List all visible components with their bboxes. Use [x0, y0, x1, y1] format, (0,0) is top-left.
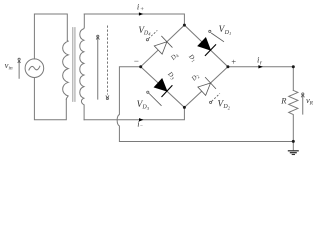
svg-text:4: 4	[148, 32, 151, 37]
svg-text:+: +	[140, 6, 144, 13]
svg-text:r: r	[260, 60, 263, 66]
svg-text:1: 1	[229, 31, 231, 36]
svg-text:R: R	[280, 95, 287, 105]
svg-text:in: in	[9, 66, 13, 72]
svg-text:2: 2	[228, 105, 231, 110]
svg-text:+: +	[231, 56, 237, 66]
svg-text:−: −	[133, 56, 139, 66]
svg-text:3: 3	[147, 106, 150, 111]
svg-text:R: R	[309, 101, 314, 107]
svg-text:−: −	[140, 125, 143, 130]
